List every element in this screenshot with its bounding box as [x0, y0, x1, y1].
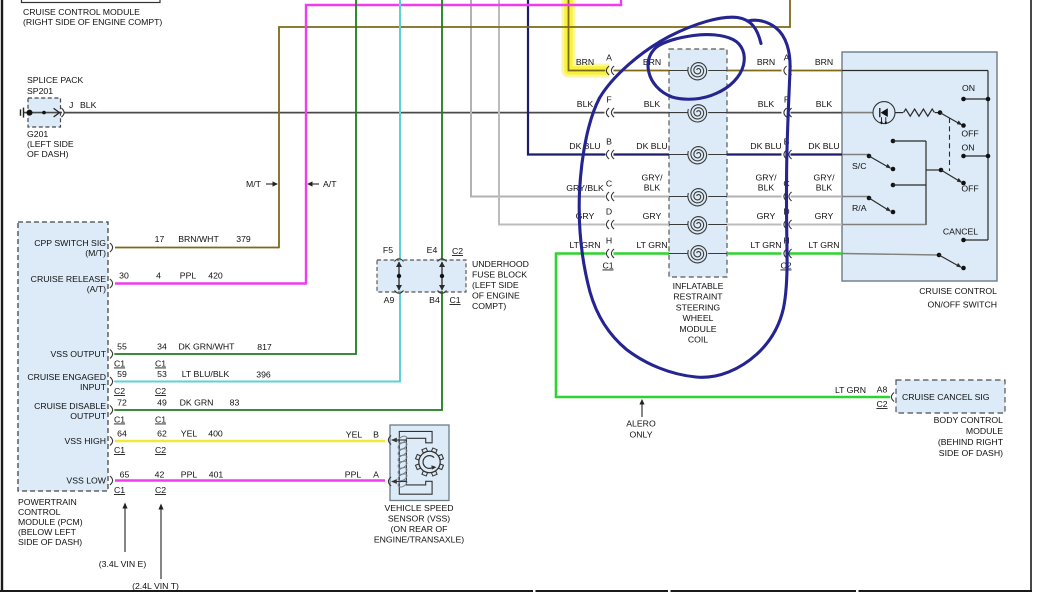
svg-text:C1: C1 — [114, 415, 125, 425]
svg-text:SENSOR (VSS): SENSOR (VSS) — [388, 514, 450, 524]
svg-text:F: F — [606, 95, 611, 105]
svg-text:GRY: GRY — [643, 211, 662, 221]
svg-text:BLK: BLK — [758, 183, 775, 193]
svg-text:F5: F5 — [383, 245, 393, 255]
svg-text:ON: ON — [961, 143, 974, 153]
svg-text:INFLATABLE: INFLATABLE — [673, 281, 724, 291]
svg-text:SPLICE PACK: SPLICE PACK — [27, 75, 84, 85]
svg-text:GRY/BLK: GRY/BLK — [566, 183, 604, 193]
svg-text:CRUISE ENGAGED: CRUISE ENGAGED — [27, 372, 106, 382]
svg-text:30: 30 — [119, 271, 129, 281]
svg-text:BRN/WHT: BRN/WHT — [178, 234, 219, 244]
svg-text:401: 401 — [209, 470, 224, 480]
svg-text:DK GRN/WHT: DK GRN/WHT — [179, 342, 236, 352]
svg-text:CRUISE CANCEL SIG: CRUISE CANCEL SIG — [902, 392, 990, 402]
svg-text:53: 53 — [157, 369, 167, 379]
svg-text:83: 83 — [230, 398, 240, 408]
svg-text:D: D — [606, 207, 612, 217]
svg-text:B4: B4 — [429, 295, 440, 305]
svg-text:MODULE (PCM): MODULE (PCM) — [18, 517, 83, 527]
svg-text:(ON REAR OF: (ON REAR OF — [391, 524, 448, 534]
svg-text:INPUT: INPUT — [80, 382, 107, 392]
svg-text:(2.4L VIN T): (2.4L VIN T) — [132, 581, 179, 591]
svg-text:VEHICLE SPEED: VEHICLE SPEED — [384, 503, 453, 513]
svg-text:65: 65 — [120, 470, 130, 480]
svg-text:OFF: OFF — [961, 129, 978, 139]
svg-text:59: 59 — [117, 369, 127, 379]
svg-text:A9: A9 — [384, 295, 395, 305]
svg-text:SP201: SP201 — [27, 86, 53, 96]
svg-text:G201: G201 — [27, 129, 48, 139]
svg-text:(LEFT SIDE: (LEFT SIDE — [472, 280, 519, 290]
svg-text:C2: C2 — [155, 485, 166, 495]
svg-text:J: J — [69, 100, 73, 110]
svg-text:49: 49 — [157, 398, 167, 408]
svg-text:LT GRN: LT GRN — [835, 385, 866, 395]
svg-text:ENGINE/TRANSAXLE): ENGINE/TRANSAXLE) — [374, 535, 464, 545]
svg-text:CONTROL: CONTROL — [18, 507, 61, 517]
svg-text:BLK: BLK — [816, 183, 833, 193]
svg-text:ALERO: ALERO — [626, 419, 656, 429]
svg-text:(RIGHT SIDE OF ENGINE COMPT): (RIGHT SIDE OF ENGINE COMPT) — [23, 17, 162, 27]
svg-text:BLK: BLK — [644, 183, 661, 193]
svg-text:C2: C2 — [452, 246, 463, 256]
svg-text:STEERING: STEERING — [676, 302, 721, 312]
svg-text:C1: C1 — [155, 415, 166, 425]
svg-text:ON/OFF SWITCH: ON/OFF SWITCH — [928, 300, 998, 310]
svg-text:DK BLU: DK BLU — [808, 141, 839, 151]
svg-text:MODULE: MODULE — [966, 426, 1003, 436]
svg-text:ON: ON — [962, 83, 975, 93]
svg-text:M/T: M/T — [246, 179, 262, 189]
svg-text:GRY: GRY — [815, 211, 834, 221]
svg-text:CRUISE RELEASE: CRUISE RELEASE — [31, 274, 107, 284]
svg-text:PPL: PPL — [345, 470, 362, 480]
svg-text:BLK: BLK — [758, 99, 775, 109]
svg-text:62: 62 — [157, 429, 167, 439]
svg-text:(BELOW LEFT: (BELOW LEFT — [18, 527, 77, 537]
svg-text:S/C: S/C — [852, 161, 866, 171]
svg-text:C1: C1 — [114, 359, 125, 369]
svg-text:R/A: R/A — [852, 203, 867, 213]
svg-text:CRUISE CONTROL: CRUISE CONTROL — [919, 286, 997, 296]
svg-text:DK BLU: DK BLU — [750, 141, 781, 151]
svg-text:379: 379 — [236, 234, 251, 244]
svg-text:WHEEL: WHEEL — [683, 313, 714, 323]
svg-text:B: B — [373, 430, 379, 440]
svg-text:MODULE: MODULE — [679, 324, 716, 334]
svg-text:LT GRN: LT GRN — [750, 240, 781, 250]
svg-text:396: 396 — [256, 370, 271, 380]
svg-text:LT GRN: LT GRN — [808, 240, 839, 250]
svg-text:4: 4 — [156, 271, 161, 281]
svg-text:OF ENGINE: OF ENGINE — [472, 291, 520, 301]
svg-text:YEL: YEL — [346, 430, 363, 440]
svg-text:A/T: A/T — [323, 179, 337, 189]
svg-text:SIDE OF DASH): SIDE OF DASH) — [939, 448, 1003, 458]
svg-text:CANCEL: CANCEL — [943, 227, 978, 237]
svg-text:BRN: BRN — [576, 57, 594, 67]
svg-text:C1: C1 — [114, 445, 125, 455]
svg-text:C2: C2 — [876, 399, 887, 409]
svg-text:(M/T): (M/T) — [85, 248, 106, 258]
svg-text:C: C — [606, 179, 612, 189]
svg-text:B: B — [606, 137, 612, 147]
svg-text:55: 55 — [117, 342, 127, 352]
svg-text:DK BLU: DK BLU — [636, 141, 667, 151]
svg-text:PPL: PPL — [180, 271, 197, 281]
svg-text:VSS LOW: VSS LOW — [66, 476, 106, 486]
svg-text:BRN: BRN — [757, 57, 775, 67]
svg-text:A: A — [606, 53, 612, 63]
svg-text:64: 64 — [117, 429, 127, 439]
svg-text:OUTPUT: OUTPUT — [70, 411, 106, 421]
svg-text:C1: C1 — [155, 359, 166, 369]
svg-text:GRY/: GRY/ — [813, 173, 835, 183]
svg-text:BLK: BLK — [80, 100, 97, 110]
svg-text:(LEFT SIDE: (LEFT SIDE — [27, 139, 74, 149]
svg-text:A8: A8 — [877, 385, 888, 395]
svg-text:72: 72 — [117, 398, 127, 408]
svg-text:C2: C2 — [114, 386, 125, 396]
svg-text:GRY/: GRY/ — [755, 173, 777, 183]
svg-text:COMPT): COMPT) — [472, 301, 506, 311]
svg-text:A: A — [373, 470, 379, 480]
svg-text:POWERTRAIN: POWERTRAIN — [18, 497, 77, 507]
svg-text:ONLY: ONLY — [629, 430, 652, 440]
svg-text:420: 420 — [208, 271, 223, 281]
svg-text:PPL: PPL — [181, 470, 198, 480]
svg-text:400: 400 — [208, 429, 223, 439]
svg-text:BRN: BRN — [815, 57, 833, 67]
svg-text:(3.4L VIN E): (3.4L VIN E) — [99, 559, 147, 569]
svg-text:GRY/: GRY/ — [641, 173, 663, 183]
svg-text:C1: C1 — [449, 295, 460, 305]
svg-text:LT GRN: LT GRN — [636, 240, 667, 250]
svg-text:VSS OUTPUT: VSS OUTPUT — [50, 349, 106, 359]
svg-text:C1: C1 — [114, 485, 125, 495]
svg-text:C1: C1 — [602, 261, 613, 271]
svg-text:FUSE BLOCK: FUSE BLOCK — [472, 270, 527, 280]
svg-text:SIDE OF DASH): SIDE OF DASH) — [18, 537, 82, 547]
svg-text:LT BLU/BLK: LT BLU/BLK — [182, 369, 230, 379]
svg-text:LT GRN: LT GRN — [569, 240, 600, 250]
svg-text:GRY: GRY — [757, 211, 776, 221]
svg-text:BLK: BLK — [644, 99, 661, 109]
svg-text:42: 42 — [155, 470, 165, 480]
svg-text:BLK: BLK — [577, 99, 594, 109]
svg-text:RESTRAINT: RESTRAINT — [673, 292, 723, 302]
svg-text:C2: C2 — [155, 445, 166, 455]
svg-text:(A/T): (A/T) — [87, 284, 106, 294]
svg-text:34: 34 — [157, 342, 167, 352]
svg-text:C2: C2 — [155, 386, 166, 396]
svg-text:OF DASH): OF DASH) — [27, 149, 69, 159]
svg-text:CPP SWITCH SIG: CPP SWITCH SIG — [34, 238, 106, 248]
svg-text:VSS HIGH: VSS HIGH — [64, 436, 106, 446]
svg-text:BLK: BLK — [816, 99, 833, 109]
svg-text:CRUISE DISABLE: CRUISE DISABLE — [34, 401, 106, 411]
svg-text:17: 17 — [155, 234, 165, 244]
svg-text:BODY CONTROL: BODY CONTROL — [934, 415, 1004, 425]
svg-text:(BEHIND RIGHT: (BEHIND RIGHT — [938, 437, 1004, 447]
svg-text:817: 817 — [257, 342, 272, 352]
svg-text:BRN: BRN — [643, 57, 661, 67]
svg-text:DK GRN: DK GRN — [180, 398, 214, 408]
svg-text:COIL: COIL — [688, 335, 708, 345]
svg-text:OFF: OFF — [961, 184, 978, 194]
svg-text:CRUISE CONTROL MODULE: CRUISE CONTROL MODULE — [23, 7, 140, 17]
svg-text:H: H — [606, 236, 612, 246]
svg-text:E4: E4 — [427, 245, 438, 255]
svg-text:YEL: YEL — [181, 429, 198, 439]
svg-text:UNDERHOOD: UNDERHOOD — [472, 259, 529, 269]
